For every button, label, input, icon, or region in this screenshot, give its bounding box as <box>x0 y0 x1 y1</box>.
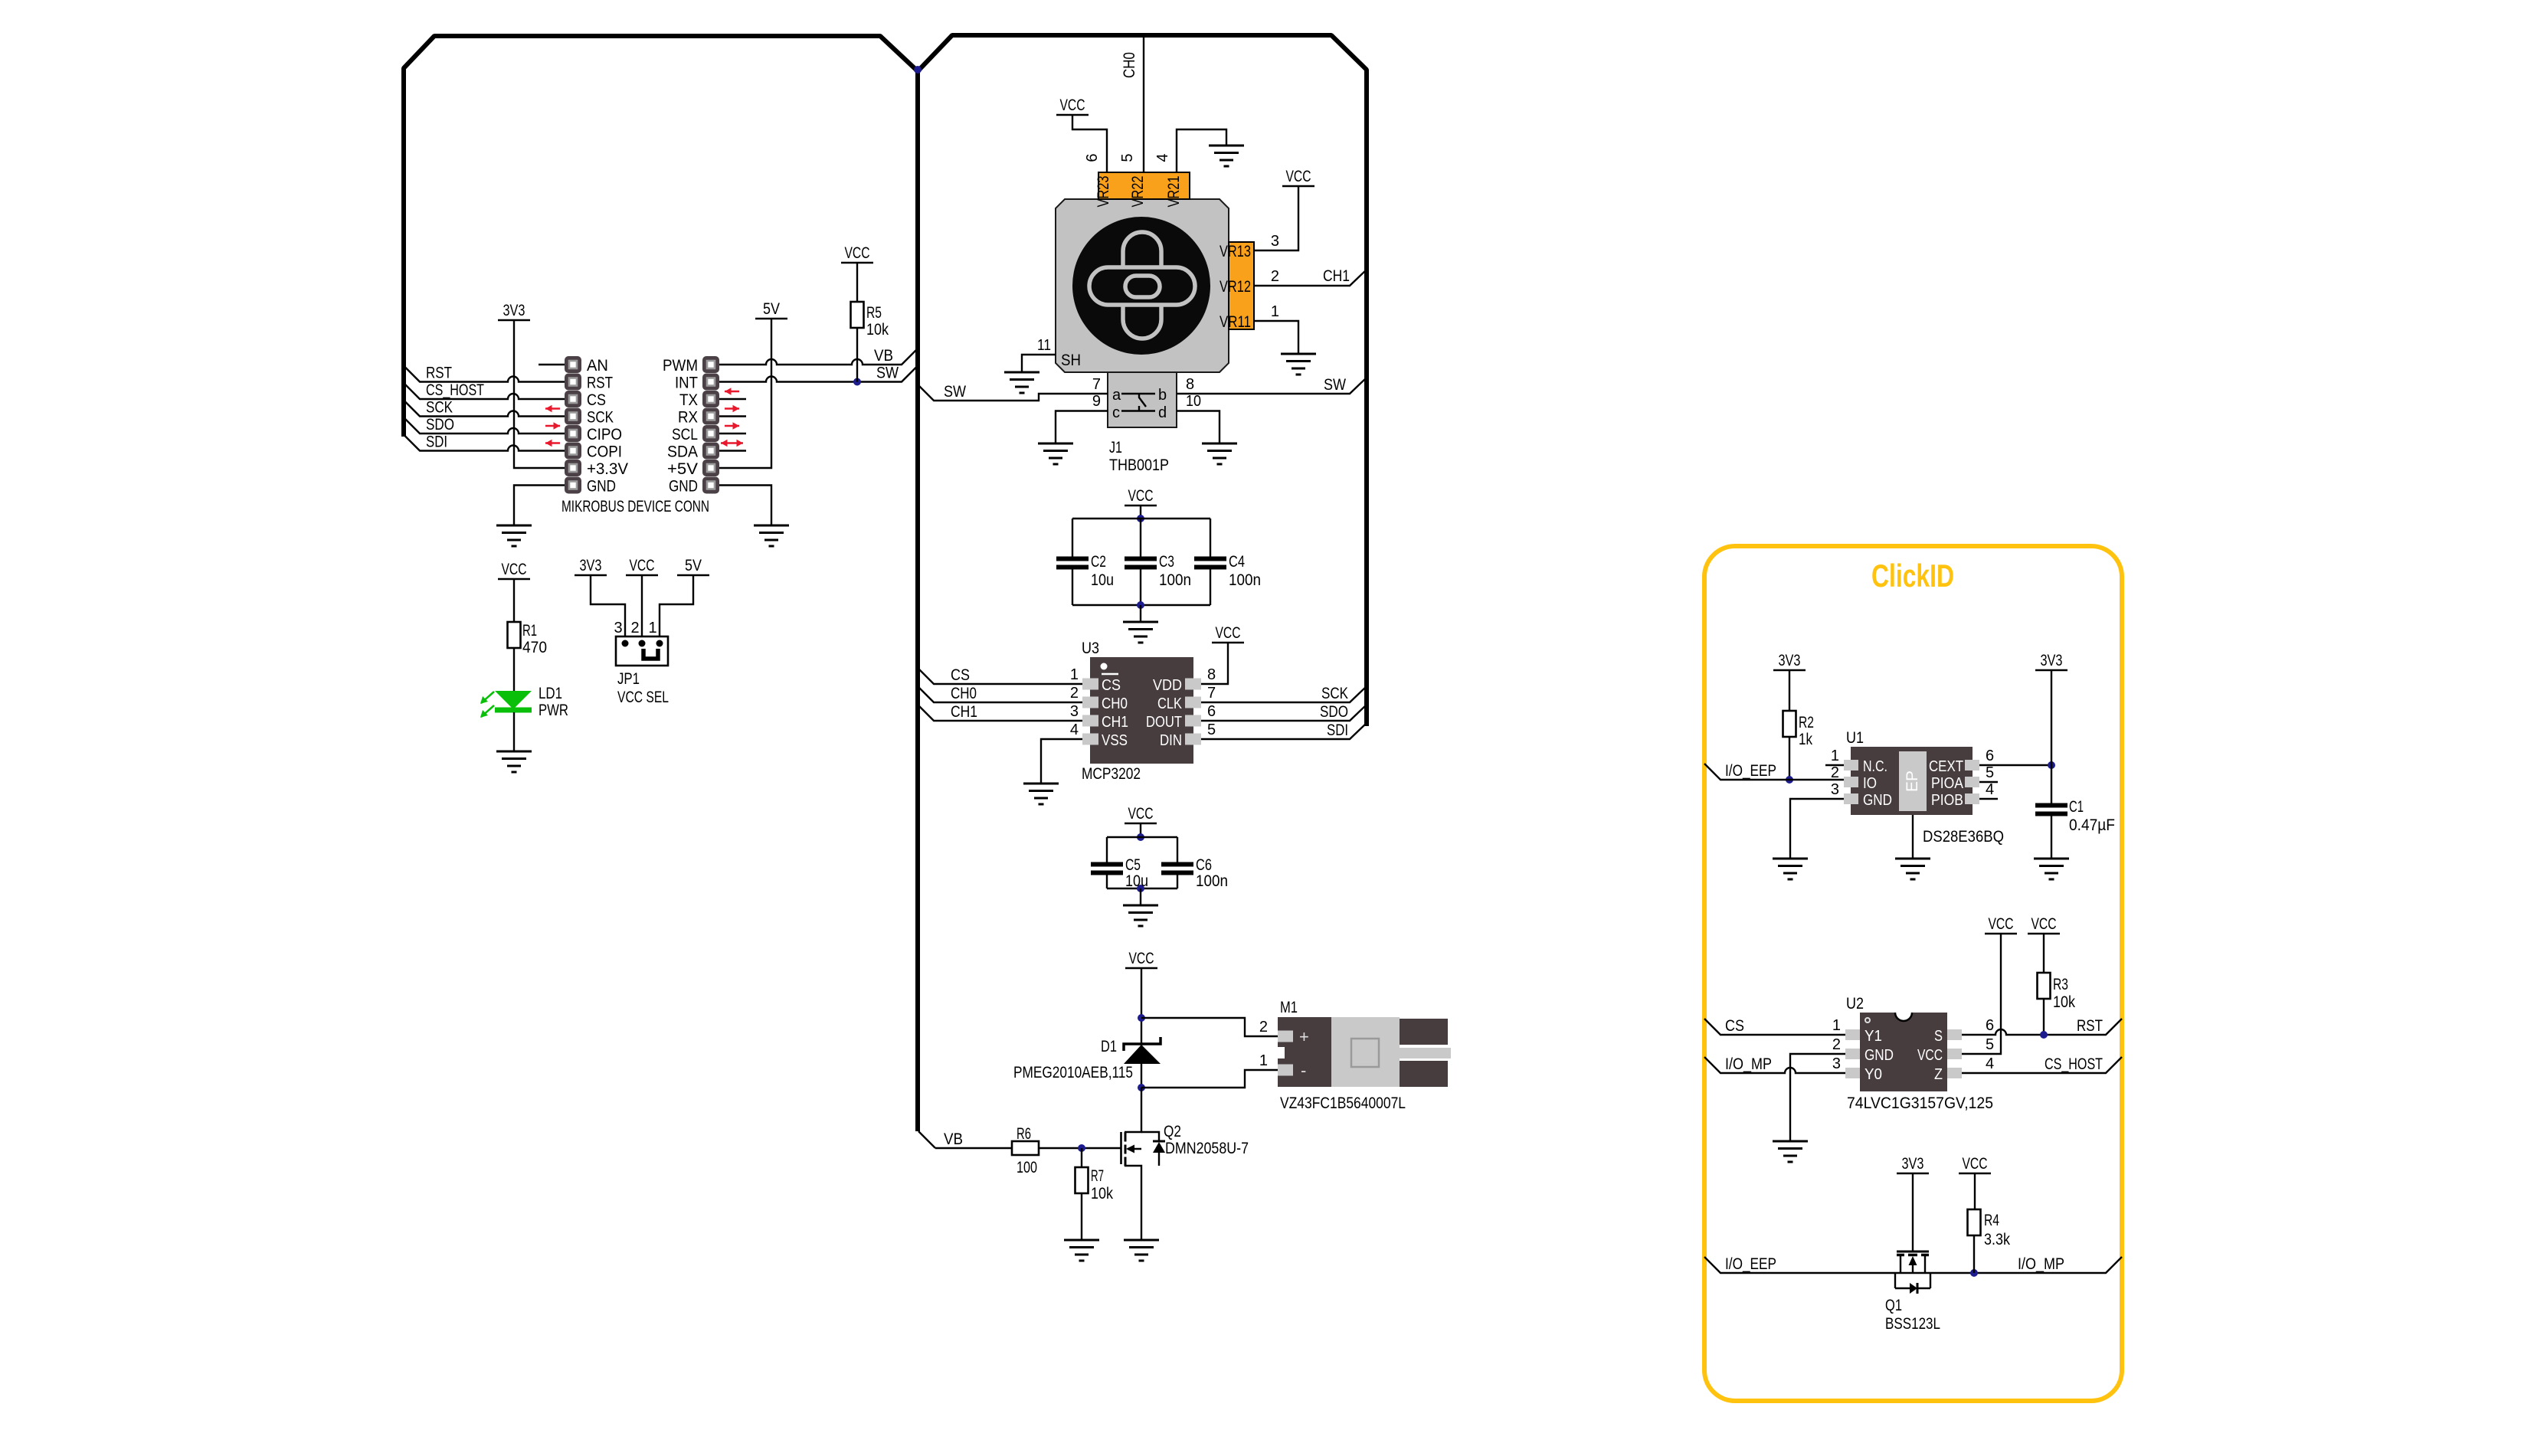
svg-text:6: 6 <box>1207 703 1216 720</box>
svg-text:R7: R7 <box>1091 1167 1104 1185</box>
svg-text:CLK: CLK <box>1157 695 1183 712</box>
svg-text:10u: 10u <box>1091 571 1114 589</box>
svg-text:4: 4 <box>1986 781 1994 798</box>
svg-text:U3: U3 <box>1082 640 1099 657</box>
svg-text:100n: 100n <box>1159 571 1191 589</box>
svg-text:SW: SW <box>876 365 899 382</box>
svg-text:LD1: LD1 <box>539 685 562 702</box>
svg-text:10u: 10u <box>1125 872 1148 890</box>
svg-text:VCC SEL: VCC SEL <box>617 689 669 706</box>
svg-text:C2: C2 <box>1091 553 1106 571</box>
svg-text:100: 100 <box>1017 1159 1037 1176</box>
svg-text:C3: C3 <box>1159 553 1174 571</box>
svg-text:PWM: PWM <box>663 357 698 375</box>
svg-text:Y0: Y0 <box>1864 1066 1882 1083</box>
svg-text:CS: CS <box>1102 677 1121 694</box>
svg-text:4: 4 <box>1070 721 1079 738</box>
svg-text:EP: EP <box>1904 771 1921 792</box>
svg-text:+3.3V: +3.3V <box>587 460 628 478</box>
svg-text:Q1: Q1 <box>1885 1297 1902 1314</box>
svg-text:VB: VB <box>874 347 893 365</box>
svg-text:100n: 100n <box>1196 872 1228 890</box>
svg-text:3: 3 <box>1832 1055 1841 1072</box>
svg-text:VCC: VCC <box>1129 950 1154 967</box>
svg-text:VCC: VCC <box>630 557 655 574</box>
svg-text:VCC: VCC <box>1963 1155 1988 1173</box>
svg-text:RX: RX <box>678 409 698 427</box>
svg-text:VR12: VR12 <box>1220 278 1251 296</box>
svg-text:SH: SH <box>1061 352 1081 369</box>
svg-text:I/O_EEP: I/O_EEP <box>1725 1255 1776 1273</box>
svg-text:RST: RST <box>587 375 613 392</box>
svg-text:SDI: SDI <box>426 434 447 451</box>
svg-text:VDD: VDD <box>1153 677 1182 694</box>
svg-text:I/O_MP: I/O_MP <box>2018 1255 2064 1273</box>
svg-text:6: 6 <box>1986 748 1994 764</box>
svg-text:IO: IO <box>1863 775 1877 792</box>
svg-text:VR13: VR13 <box>1220 243 1251 260</box>
svg-text:GND: GND <box>1864 1047 1894 1064</box>
svg-text:D1: D1 <box>1101 1038 1117 1055</box>
svg-text:SCK: SCK <box>587 409 614 427</box>
svg-text:CH0: CH0 <box>1121 52 1138 78</box>
svg-text:CS: CS <box>587 391 606 409</box>
svg-text:+: + <box>1299 1027 1309 1046</box>
svg-text:MIKROBUS DEVICE CONN: MIKROBUS DEVICE CONN <box>561 498 709 515</box>
svg-text:M1: M1 <box>1280 999 1298 1016</box>
svg-text:6: 6 <box>1084 153 1101 162</box>
svg-text:b: b <box>1158 387 1167 404</box>
svg-text:6: 6 <box>1986 1017 1994 1034</box>
svg-text:CH1: CH1 <box>1323 267 1350 285</box>
svg-text:R4: R4 <box>1984 1212 1999 1229</box>
svg-text:9: 9 <box>1092 393 1101 410</box>
svg-text:5: 5 <box>1207 721 1216 738</box>
svg-text:0.47µF: 0.47µF <box>2069 816 2115 834</box>
svg-text:INT: INT <box>675 375 698 392</box>
svg-text:VCC: VCC <box>845 244 870 262</box>
svg-text:10k: 10k <box>866 321 889 339</box>
svg-text:MCP3202: MCP3202 <box>1082 765 1141 783</box>
svg-text:C6: C6 <box>1196 856 1212 874</box>
svg-text:J1: J1 <box>1109 439 1122 456</box>
svg-text:-: - <box>1301 1061 1306 1080</box>
svg-text:1k: 1k <box>1799 731 1812 748</box>
svg-text:RST: RST <box>426 365 452 382</box>
svg-text:SCK: SCK <box>426 399 453 417</box>
svg-text:3V3: 3V3 <box>580 557 602 574</box>
svg-text:3.3k: 3.3k <box>1984 1231 2010 1248</box>
svg-text:GND: GND <box>669 478 698 496</box>
svg-text:3: 3 <box>614 620 622 636</box>
svg-text:8: 8 <box>1207 666 1216 683</box>
svg-text:VCC: VCC <box>1917 1047 1943 1064</box>
svg-text:CH0: CH0 <box>951 685 977 702</box>
svg-text:VR21: VR21 <box>1165 176 1183 208</box>
svg-text:3V3: 3V3 <box>503 302 525 319</box>
svg-text:THB001P: THB001P <box>1109 456 1169 474</box>
svg-text:c: c <box>1112 404 1120 421</box>
svg-text:VZ43FC1B5640007L: VZ43FC1B5640007L <box>1280 1094 1406 1112</box>
svg-text:2: 2 <box>1832 1036 1841 1053</box>
svg-text:1: 1 <box>1831 748 1839 764</box>
svg-text:GND: GND <box>1863 792 1892 809</box>
svg-text:VR22: VR22 <box>1129 176 1147 208</box>
svg-text:C5: C5 <box>1125 856 1141 874</box>
svg-text:VCC: VCC <box>1286 168 1311 185</box>
svg-text:VCC: VCC <box>1128 805 1154 823</box>
svg-text:470: 470 <box>522 639 547 656</box>
svg-text:10k: 10k <box>1091 1185 1113 1202</box>
svg-text:2: 2 <box>1070 685 1079 702</box>
svg-text:SDA: SDA <box>667 443 698 461</box>
svg-text:JP1: JP1 <box>617 670 640 688</box>
svg-text:CS: CS <box>1725 1017 1744 1035</box>
svg-text:DOUT: DOUT <box>1146 714 1182 731</box>
svg-text:d: d <box>1158 404 1167 421</box>
svg-text:2: 2 <box>1259 1019 1268 1036</box>
svg-text:R1: R1 <box>522 622 537 640</box>
svg-text:4: 4 <box>1154 153 1171 162</box>
svg-text:1: 1 <box>1259 1052 1268 1069</box>
svg-text:CS_HOST: CS_HOST <box>426 381 484 399</box>
svg-text:2: 2 <box>1271 268 1279 285</box>
svg-text:5V: 5V <box>763 300 780 318</box>
svg-text:3V3: 3V3 <box>2041 652 2063 669</box>
svg-text:R5: R5 <box>866 304 882 322</box>
svg-text:VCC: VCC <box>1060 97 1085 114</box>
svg-text:SCK: SCK <box>1321 685 1348 702</box>
svg-text:2: 2 <box>630 620 639 636</box>
svg-text:CH0: CH0 <box>1102 695 1128 712</box>
svg-text:10: 10 <box>1186 393 1201 410</box>
svg-text:VR11: VR11 <box>1220 313 1251 331</box>
svg-text:DS28E36BQ: DS28E36BQ <box>1923 828 2004 846</box>
svg-text:VSS: VSS <box>1102 732 1128 749</box>
svg-text:VCC: VCC <box>2031 915 2057 933</box>
svg-text:PMEG2010AEB,115: PMEG2010AEB,115 <box>1013 1064 1133 1081</box>
svg-text:CH1: CH1 <box>1102 714 1128 731</box>
svg-text:SDO: SDO <box>426 416 454 434</box>
svg-text:1: 1 <box>1070 666 1079 683</box>
svg-text:PIOA: PIOA <box>1931 775 1964 792</box>
svg-text:5: 5 <box>1986 1036 1994 1053</box>
svg-text:5: 5 <box>1986 764 1994 781</box>
svg-text:R6: R6 <box>1017 1125 1031 1143</box>
svg-text:I/O_MP: I/O_MP <box>1725 1055 1772 1073</box>
svg-text:SCL: SCL <box>672 426 698 443</box>
svg-text:N.C.: N.C. <box>1863 758 1887 775</box>
svg-text:SDO: SDO <box>1320 703 1348 721</box>
svg-text:AN: AN <box>587 357 608 375</box>
svg-text:R3: R3 <box>2053 976 2068 993</box>
svg-text:100n: 100n <box>1229 571 1261 589</box>
svg-text:3: 3 <box>1271 233 1279 250</box>
svg-text:+5V: +5V <box>667 460 698 478</box>
svg-text:U1: U1 <box>1846 729 1864 747</box>
svg-text:R2: R2 <box>1799 714 1814 731</box>
svg-text:1: 1 <box>1832 1017 1841 1034</box>
svg-text:VCC: VCC <box>1216 624 1241 642</box>
svg-text:DMN2058U-7: DMN2058U-7 <box>1165 1140 1249 1157</box>
svg-text:SW: SW <box>1324 376 1346 394</box>
svg-text:CIPO: CIPO <box>587 426 622 443</box>
svg-text:a: a <box>1112 387 1121 404</box>
svg-text:BSS123L: BSS123L <box>1885 1315 1940 1333</box>
svg-text:VR23: VR23 <box>1095 176 1112 208</box>
svg-text:C1: C1 <box>2069 798 2084 816</box>
svg-text:7: 7 <box>1092 376 1101 393</box>
svg-text:8: 8 <box>1186 376 1194 393</box>
svg-text:I/O_EEP: I/O_EEP <box>1725 762 1776 780</box>
svg-text:U2: U2 <box>1846 995 1864 1013</box>
svg-text:5V: 5V <box>685 557 702 574</box>
svg-text:7: 7 <box>1207 685 1216 702</box>
svg-text:SDI: SDI <box>1327 721 1348 739</box>
svg-text:VCC: VCC <box>1128 487 1154 505</box>
svg-text:DIN: DIN <box>1160 732 1182 749</box>
svg-text:Z: Z <box>1934 1066 1943 1083</box>
svg-text:Y1: Y1 <box>1864 1028 1882 1045</box>
svg-text:TX: TX <box>679 391 698 409</box>
svg-text:C4: C4 <box>1229 553 1245 571</box>
svg-text:5: 5 <box>1119 153 1136 162</box>
svg-text:Q2: Q2 <box>1164 1123 1181 1140</box>
svg-text:PWR: PWR <box>539 702 568 719</box>
svg-text:PIOB: PIOB <box>1931 792 1963 809</box>
svg-text:S: S <box>1934 1028 1943 1045</box>
svg-text:CS_HOST: CS_HOST <box>2045 1055 2103 1073</box>
svg-text:2: 2 <box>1831 764 1839 781</box>
svg-text:CH1: CH1 <box>951 703 977 721</box>
svg-text:GND: GND <box>587 478 616 496</box>
svg-text:VCC: VCC <box>1989 915 2014 933</box>
svg-text:COPI: COPI <box>587 443 622 461</box>
svg-text:VB: VB <box>944 1130 963 1148</box>
svg-text:11: 11 <box>1037 337 1051 354</box>
svg-text:3V3: 3V3 <box>1902 1155 1924 1173</box>
svg-text:3: 3 <box>1070 703 1079 720</box>
svg-text:CS: CS <box>951 666 970 684</box>
svg-text:ClickID: ClickID <box>1871 558 1954 594</box>
svg-text:3: 3 <box>1831 781 1839 798</box>
svg-text:VCC: VCC <box>502 561 527 578</box>
svg-text:3V3: 3V3 <box>1779 652 1801 669</box>
svg-text:1: 1 <box>648 620 656 636</box>
svg-text:74LVC1G3157GV,125: 74LVC1G3157GV,125 <box>1847 1094 1993 1112</box>
svg-text:10k: 10k <box>2053 993 2075 1011</box>
svg-text:1: 1 <box>1271 303 1279 320</box>
svg-text:SW: SW <box>944 383 966 401</box>
svg-text:CEXT: CEXT <box>1929 758 1963 775</box>
svg-text:RST: RST <box>2077 1017 2103 1035</box>
svg-text:4: 4 <box>1986 1055 1994 1072</box>
